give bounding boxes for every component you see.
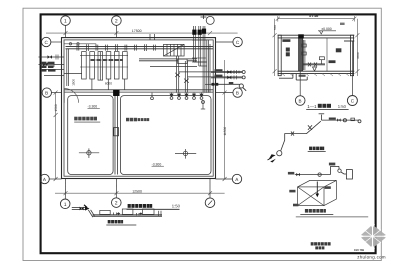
riser cross ties [192, 40, 206, 62]
vertical pipe pair b [184, 61, 189, 93]
grid 1 top [61, 16, 71, 38]
tank 1 fire reserve [68, 96, 113, 175]
section label 1-1 [306, 104, 348, 110]
cube level marks [289, 190, 295, 193]
svg-text:12500: 12500 [132, 190, 142, 194]
svg-text:17500: 17500 [132, 29, 142, 33]
valve bowtie left 2 [43, 63, 48, 67]
section right dim [355, 19, 359, 76]
section grid stems [300, 41, 352, 96]
svg-text:550: 550 [273, 25, 277, 30]
black column square on grid 2 [113, 90, 119, 96]
pit steps [279, 74, 307, 80]
inlet pipe [72, 208, 87, 210]
trench boxes [100, 209, 161, 216]
pump column 5 [114, 52, 119, 79]
detail circle callout [201, 15, 215, 24]
section labels blobs [282, 39, 341, 63]
svg-text:zhulong.com: zhulong.com [357, 254, 386, 259]
mid horizontal pipe [139, 59, 197, 61]
label drain system [106, 220, 136, 225]
top horizontal run [319, 114, 361, 123]
label water supply system [308, 147, 326, 152]
valve + arrow cluster [80, 207, 84, 211]
right pipe 3 drain [211, 84, 246, 91]
svg-text:B: B [299, 99, 302, 104]
svg-text:-3.300: -3.300 [88, 105, 98, 109]
bottom dimension line [55, 191, 225, 195]
label rain system [300, 209, 333, 215]
small level mark left [340, 23, 345, 25]
svg-text:-3.300: -3.300 [152, 162, 162, 166]
riser path [281, 121, 321, 151]
top stub pipe above header [64, 43, 96, 47]
pit dim text [299, 75, 306, 77]
column drop pipes [92, 79, 125, 90]
pump column 4 [106, 52, 111, 79]
svg-text:1: 1 [64, 19, 67, 25]
pump column 2 [90, 52, 95, 79]
level indicator tank2 right [201, 100, 205, 109]
section left wall [278, 35, 281, 75]
section interior wall hatched [299, 38, 303, 71]
header hanger ticks [77, 34, 155, 51]
left label blobs [41, 62, 56, 72]
label -3.300 tank1 [88, 105, 100, 109]
pump column 3 [98, 52, 103, 81]
left vertical dim [54, 91, 58, 181]
door arc left wall [64, 89, 78, 103]
section bottom slab [278, 71, 355, 73]
axonometric cube [298, 180, 337, 205]
foot valves into tank2 [151, 93, 203, 100]
valve box on mid pipe [178, 59, 188, 63]
dividing wall pump/tank [64, 90, 213, 92]
section top dim line [276, 16, 357, 22]
interior connections to right wall [179, 72, 211, 84]
section interior pipes [302, 40, 325, 71]
valve bowtie left 1 [48, 55, 53, 59]
tank divider wall [114, 96, 119, 175]
pipe stubs through left wall [39, 57, 65, 76]
column tie lines [80, 56, 128, 67]
drop diagonal [88, 210, 94, 217]
riser valve blobs [192, 29, 206, 35]
section left dim [273, 19, 277, 76]
svg-text:1500: 1500 [71, 79, 75, 86]
left inside riser pair [64, 49, 82, 86]
svg-text:5746: 5746 [309, 13, 319, 18]
inlet circle [277, 151, 282, 156]
svg-text:B: B [236, 91, 239, 96]
right pipe 2 [211, 76, 245, 79]
tank 2 [120, 96, 211, 175]
tank2 center cross [175, 149, 196, 159]
pump column 6 [123, 52, 128, 79]
svg-text:1500: 1500 [54, 104, 58, 111]
grid 2 bottom [112, 179, 122, 208]
svg-text:B: B [45, 91, 48, 96]
svg-text:1: 1 [64, 202, 67, 208]
inlet arrow [269, 154, 276, 159]
drawing title line1 [311, 242, 331, 245]
junction blob [298, 34, 304, 38]
tank1 center cross [79, 148, 99, 158]
svg-text:11500: 11500 [223, 127, 227, 136]
svg-text:6000: 6000 [105, 81, 112, 85]
DN label row blobs [91, 59, 124, 61]
watermark logo [359, 224, 389, 249]
grid B left [42, 88, 61, 97]
room outer wall [62, 38, 216, 179]
long base line [296, 216, 368, 218]
grid B right [216, 88, 243, 97]
grid 1 bottom [60, 179, 70, 209]
±0.000 level [318, 27, 336, 34]
main header pipe [66, 46, 214, 48]
svg-text:2: 2 [115, 201, 118, 207]
grid A right [216, 174, 242, 183]
cube arrow [316, 182, 320, 198]
grid A left [40, 174, 62, 183]
svg-text:2: 2 [115, 19, 118, 25]
label above [329, 163, 335, 166]
svg-text:±0.000: ±0.000 [321, 27, 331, 31]
bottom slab hatch [282, 74, 349, 76]
vertical pipe pair a [175, 56, 180, 93]
grid 3 bottom right [205, 179, 215, 208]
label -3.300 tank2 [152, 162, 164, 166]
riser bundle to top [194, 26, 211, 93]
section right wall [350, 35, 353, 75]
section bubble B [295, 96, 305, 106]
inner thick frame [41, 14, 376, 253]
small marks near left pipes [54, 55, 58, 68]
trench base [93, 214, 163, 216]
small diamond marks on trench [117, 212, 121, 215]
small tank rect [346, 170, 352, 179]
section thin inner line [326, 38, 328, 71]
right vertical dim [223, 60, 227, 181]
grid C left [42, 37, 62, 46]
grid C right [216, 37, 243, 46]
room inner wall [64, 40, 213, 176]
pipe run [295, 166, 347, 176]
level mark a [288, 172, 294, 175]
top dimension line [46, 31, 238, 35]
right pipe 1 [211, 71, 245, 74]
grid 2 top [112, 16, 122, 38]
pump column 1 [82, 52, 87, 79]
section bubble C [347, 96, 357, 106]
stair [164, 44, 185, 56]
title blobs [128, 204, 153, 208]
section top slab [278, 35, 355, 41]
svg-text:150 765: 150 765 [354, 248, 365, 252]
label water tank 120M (blobs) [126, 118, 149, 122]
label fire tank (blobs) [74, 117, 100, 122]
svg-text:1—1: 1—1 [307, 104, 317, 109]
svg-text:3600: 3600 [356, 52, 360, 59]
drawing title line2 [315, 246, 324, 249]
svg-text:1:50: 1:50 [172, 204, 181, 209]
svg-text:1:50: 1:50 [338, 104, 347, 109]
mid pipe second run [150, 66, 197, 68]
